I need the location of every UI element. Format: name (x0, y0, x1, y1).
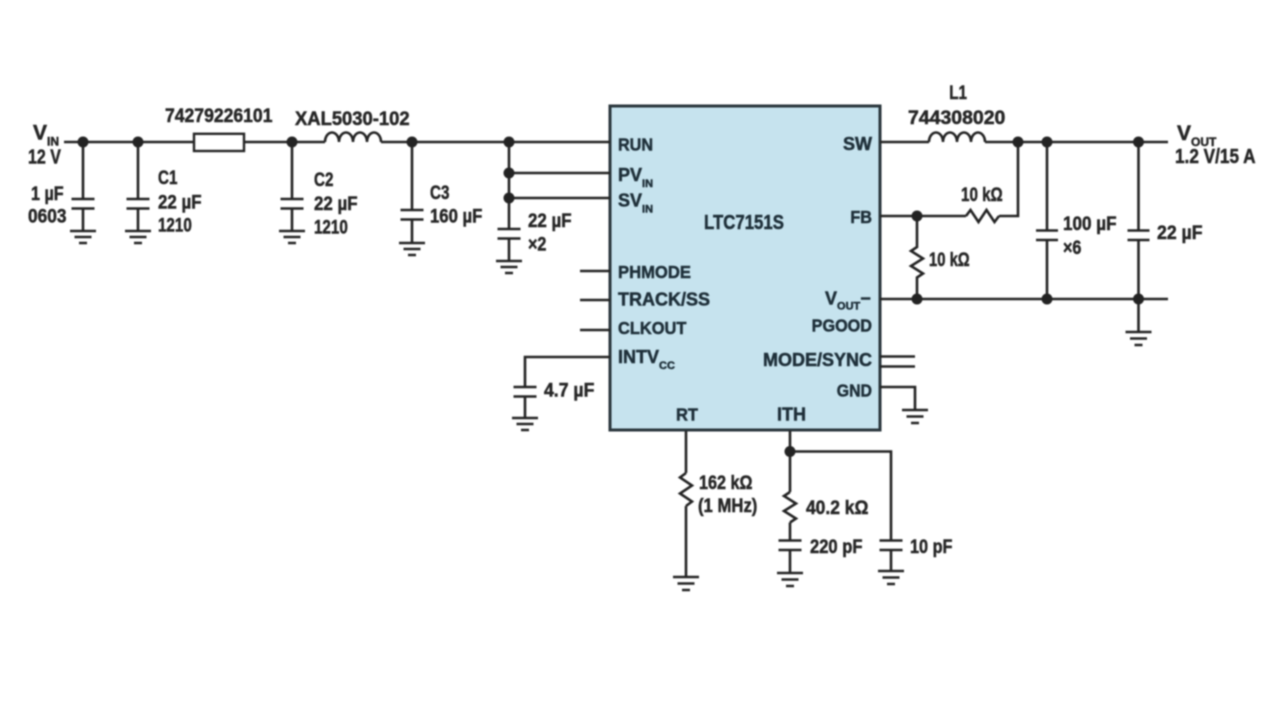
svg-text:TRACK/SS: TRACK/SS (618, 290, 710, 310)
node dot SW-100uF (1042, 137, 1053, 148)
ground under 162k (673, 577, 699, 590)
svg-text:162 kΩ: 162 kΩ (699, 472, 752, 494)
wire 220pF to ground (789, 550, 792, 573)
wire C 1uF branch (82, 142, 85, 199)
svg-text:ITH: ITH (777, 405, 806, 425)
wire 162k to ground (685, 506, 688, 577)
wire RT pin down (685, 431, 688, 473)
svg-text:22 µF: 22 µF (314, 193, 358, 214)
svg-text:4.7 µF: 4.7 µF (544, 379, 594, 401)
wire PVIN (509, 172, 610, 175)
node dot PVin top (504, 137, 515, 148)
svg-text:(1 MHz): (1 MHz) (698, 495, 757, 516)
wire 22uF x2 to ground (508, 239, 511, 262)
svg-text:100 µF: 100 µF (1063, 213, 1117, 234)
svg-text:10 kΩ: 10 kΩ (929, 249, 970, 270)
IC U1 LTC7151S body (610, 106, 880, 430)
node dot VIN a (78, 137, 89, 148)
wire 4.7uF to ground (524, 397, 527, 419)
ground under 22uF x2 (496, 261, 522, 273)
wire 22uF out branch (1137, 142, 1140, 231)
svg-text:C3: C3 (430, 181, 449, 203)
svg-text:FB: FB (850, 207, 872, 227)
wire MODE/SYNC stub lower (880, 365, 915, 368)
svg-text:L1: L1 (949, 81, 967, 103)
wire C2 branch (291, 142, 294, 199)
svg-text:10 pF: 10 pF (910, 536, 953, 557)
capacitor 4.7uF (514, 387, 537, 397)
node dot C2 (287, 137, 298, 148)
wire SW pin to L1 (880, 141, 929, 144)
resistor 162k (680, 473, 692, 506)
wire rail to ground (1137, 299, 1140, 332)
ground under 10pF (878, 571, 904, 584)
ground under C1 (125, 231, 151, 243)
wire C3 to ground (411, 220, 414, 244)
svg-text:22 µF: 22 µF (1157, 221, 1202, 243)
svg-text:×2: ×2 (528, 233, 547, 255)
svg-text:LTC7151S: LTC7151S (704, 211, 784, 234)
wire 100uF branch (1046, 142, 1049, 231)
capacitor 22uF x2 (498, 229, 521, 239)
wire GND pin (880, 387, 915, 410)
svg-text:RT: RT (676, 404, 698, 425)
node dot SW-22uF (1133, 137, 1144, 148)
node dot SW-FB (1013, 137, 1024, 148)
wire ITH branch to 10pF (790, 452, 891, 541)
ground under 220pF (777, 573, 803, 586)
capacitor 22uF output (1128, 231, 1150, 241)
svg-text:VIN: VIN (33, 122, 59, 149)
svg-text:SW: SW (843, 134, 872, 154)
svg-text:PGOOD: PGOOD (812, 316, 872, 336)
svg-text:GND: GND (837, 381, 872, 401)
wire 22uF out to rail (1137, 240, 1140, 299)
node dot FB (912, 211, 923, 222)
ground under C2 (279, 231, 305, 243)
svg-text:1.2 V/15 A: 1.2 V/15 A (1175, 145, 1256, 168)
svg-text:RUN: RUN (618, 135, 653, 155)
svg-text:1210: 1210 (314, 216, 348, 238)
ground at GND pin (902, 410, 928, 423)
wire VOUT- rail (880, 298, 1168, 301)
resistor 10k lower (911, 216, 923, 299)
inductor L1 744308020 (929, 133, 985, 143)
wire INTVCC (525, 357, 610, 387)
wire L1 to VOUT (985, 141, 1168, 144)
svg-text:PHMODE: PHMODE (618, 261, 691, 282)
svg-text:22 µF: 22 µF (528, 210, 572, 231)
svg-text:10 kΩ: 10 kΩ (961, 183, 1003, 205)
svg-text:0603: 0603 (28, 206, 66, 227)
wire ITH pin down (789, 431, 792, 492)
capacitor C2 (281, 199, 304, 209)
svg-text:220 pF: 220 pF (810, 536, 863, 557)
svg-text:22 µF: 22 µF (158, 192, 202, 213)
ferrite bead FB1 74279226101 body (194, 134, 244, 151)
wire bead to C2 node (244, 141, 325, 144)
ground under output rail (1126, 332, 1152, 345)
capacitor 1uF 0603 (72, 199, 95, 209)
svg-text:MODE/SYNC: MODE/SYNC (763, 350, 872, 370)
svg-text:1 µF: 1 µF (31, 183, 64, 205)
wire C1 to ground (137, 209, 140, 232)
svg-text:40.2 kΩ: 40.2 kΩ (806, 496, 868, 518)
wire input node vertical (508, 142, 511, 229)
capacitor C3 (401, 210, 424, 220)
svg-text:12 V: 12 V (28, 146, 61, 168)
ground under 1uF (70, 231, 96, 243)
node dot SVin (504, 193, 515, 204)
wire C3 branch (411, 142, 414, 210)
wire 10pF to ground (890, 550, 893, 571)
svg-text:C1: C1 (158, 166, 178, 188)
capacitor 100uF x6 (1036, 231, 1058, 241)
wire VIN rail left segment (64, 141, 194, 144)
node dot rail-100uF (1042, 294, 1053, 305)
svg-text:1210: 1210 (158, 214, 192, 236)
wire 40.2k to 220pF (789, 523, 792, 541)
node dot rail-22uF (1133, 294, 1144, 305)
node dot C3 (407, 137, 418, 148)
resistor 40.2k (784, 492, 796, 523)
wire 100uF to rail (1046, 240, 1049, 299)
capacitor 220pF (779, 541, 802, 551)
capacitor C1 (127, 199, 150, 209)
svg-text:CLKOUT: CLKOUT (618, 317, 687, 338)
capacitor 10pF (880, 541, 903, 551)
wire C2 to ground (291, 209, 294, 232)
node dot ITH (785, 446, 796, 457)
inductor L XAL5030-102 (325, 133, 381, 143)
wire PHMODE stub (580, 270, 610, 273)
ground under C3 (399, 243, 425, 255)
svg-text:C2: C2 (314, 168, 333, 190)
wire MODE/SYNC stub upper (880, 355, 915, 358)
wire C1 branch (137, 142, 140, 199)
wire 1uF to ground (82, 209, 85, 232)
wire TRACK/SS stub (580, 299, 610, 302)
wire FB pin (880, 215, 966, 218)
node dot VIN b (133, 137, 144, 148)
wire CLKOUT stub (580, 329, 610, 332)
svg-text:XAL5030-102: XAL5030-102 (295, 108, 410, 129)
svg-text:744308020: 744308020 (908, 108, 1005, 129)
svg-text:74279226101: 74279226101 (165, 104, 272, 126)
wire 10k to SW node (999, 142, 1018, 216)
resistor 10k feedback top (966, 210, 999, 222)
wire inductor to RUN pin (381, 141, 610, 144)
node dot rail-10k (912, 294, 923, 305)
ground under 4.7uF (512, 418, 538, 430)
svg-text:×6: ×6 (1063, 237, 1082, 259)
wire SVIN (509, 197, 610, 200)
node dot PVin (504, 168, 515, 179)
svg-text:160 µF: 160 µF (430, 206, 482, 227)
